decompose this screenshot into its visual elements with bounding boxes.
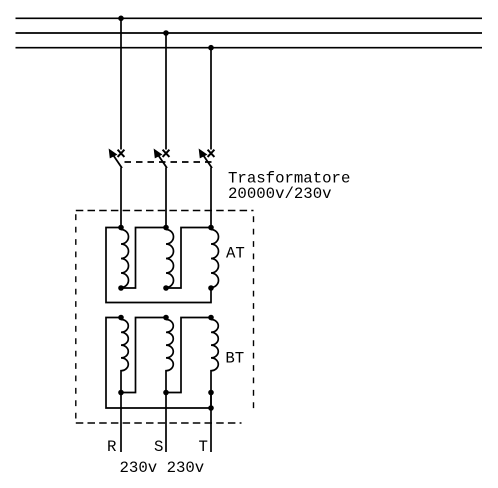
svg-text:S: S	[154, 438, 163, 456]
svg-text:R: R	[107, 438, 117, 456]
svg-text:230v 230v: 230v 230v	[120, 459, 205, 477]
svg-text:T: T	[199, 438, 208, 456]
svg-text:BT: BT	[225, 350, 244, 368]
svg-text:AT: AT	[226, 245, 245, 263]
svg-text:20000v/230v: 20000v/230v	[228, 185, 332, 203]
